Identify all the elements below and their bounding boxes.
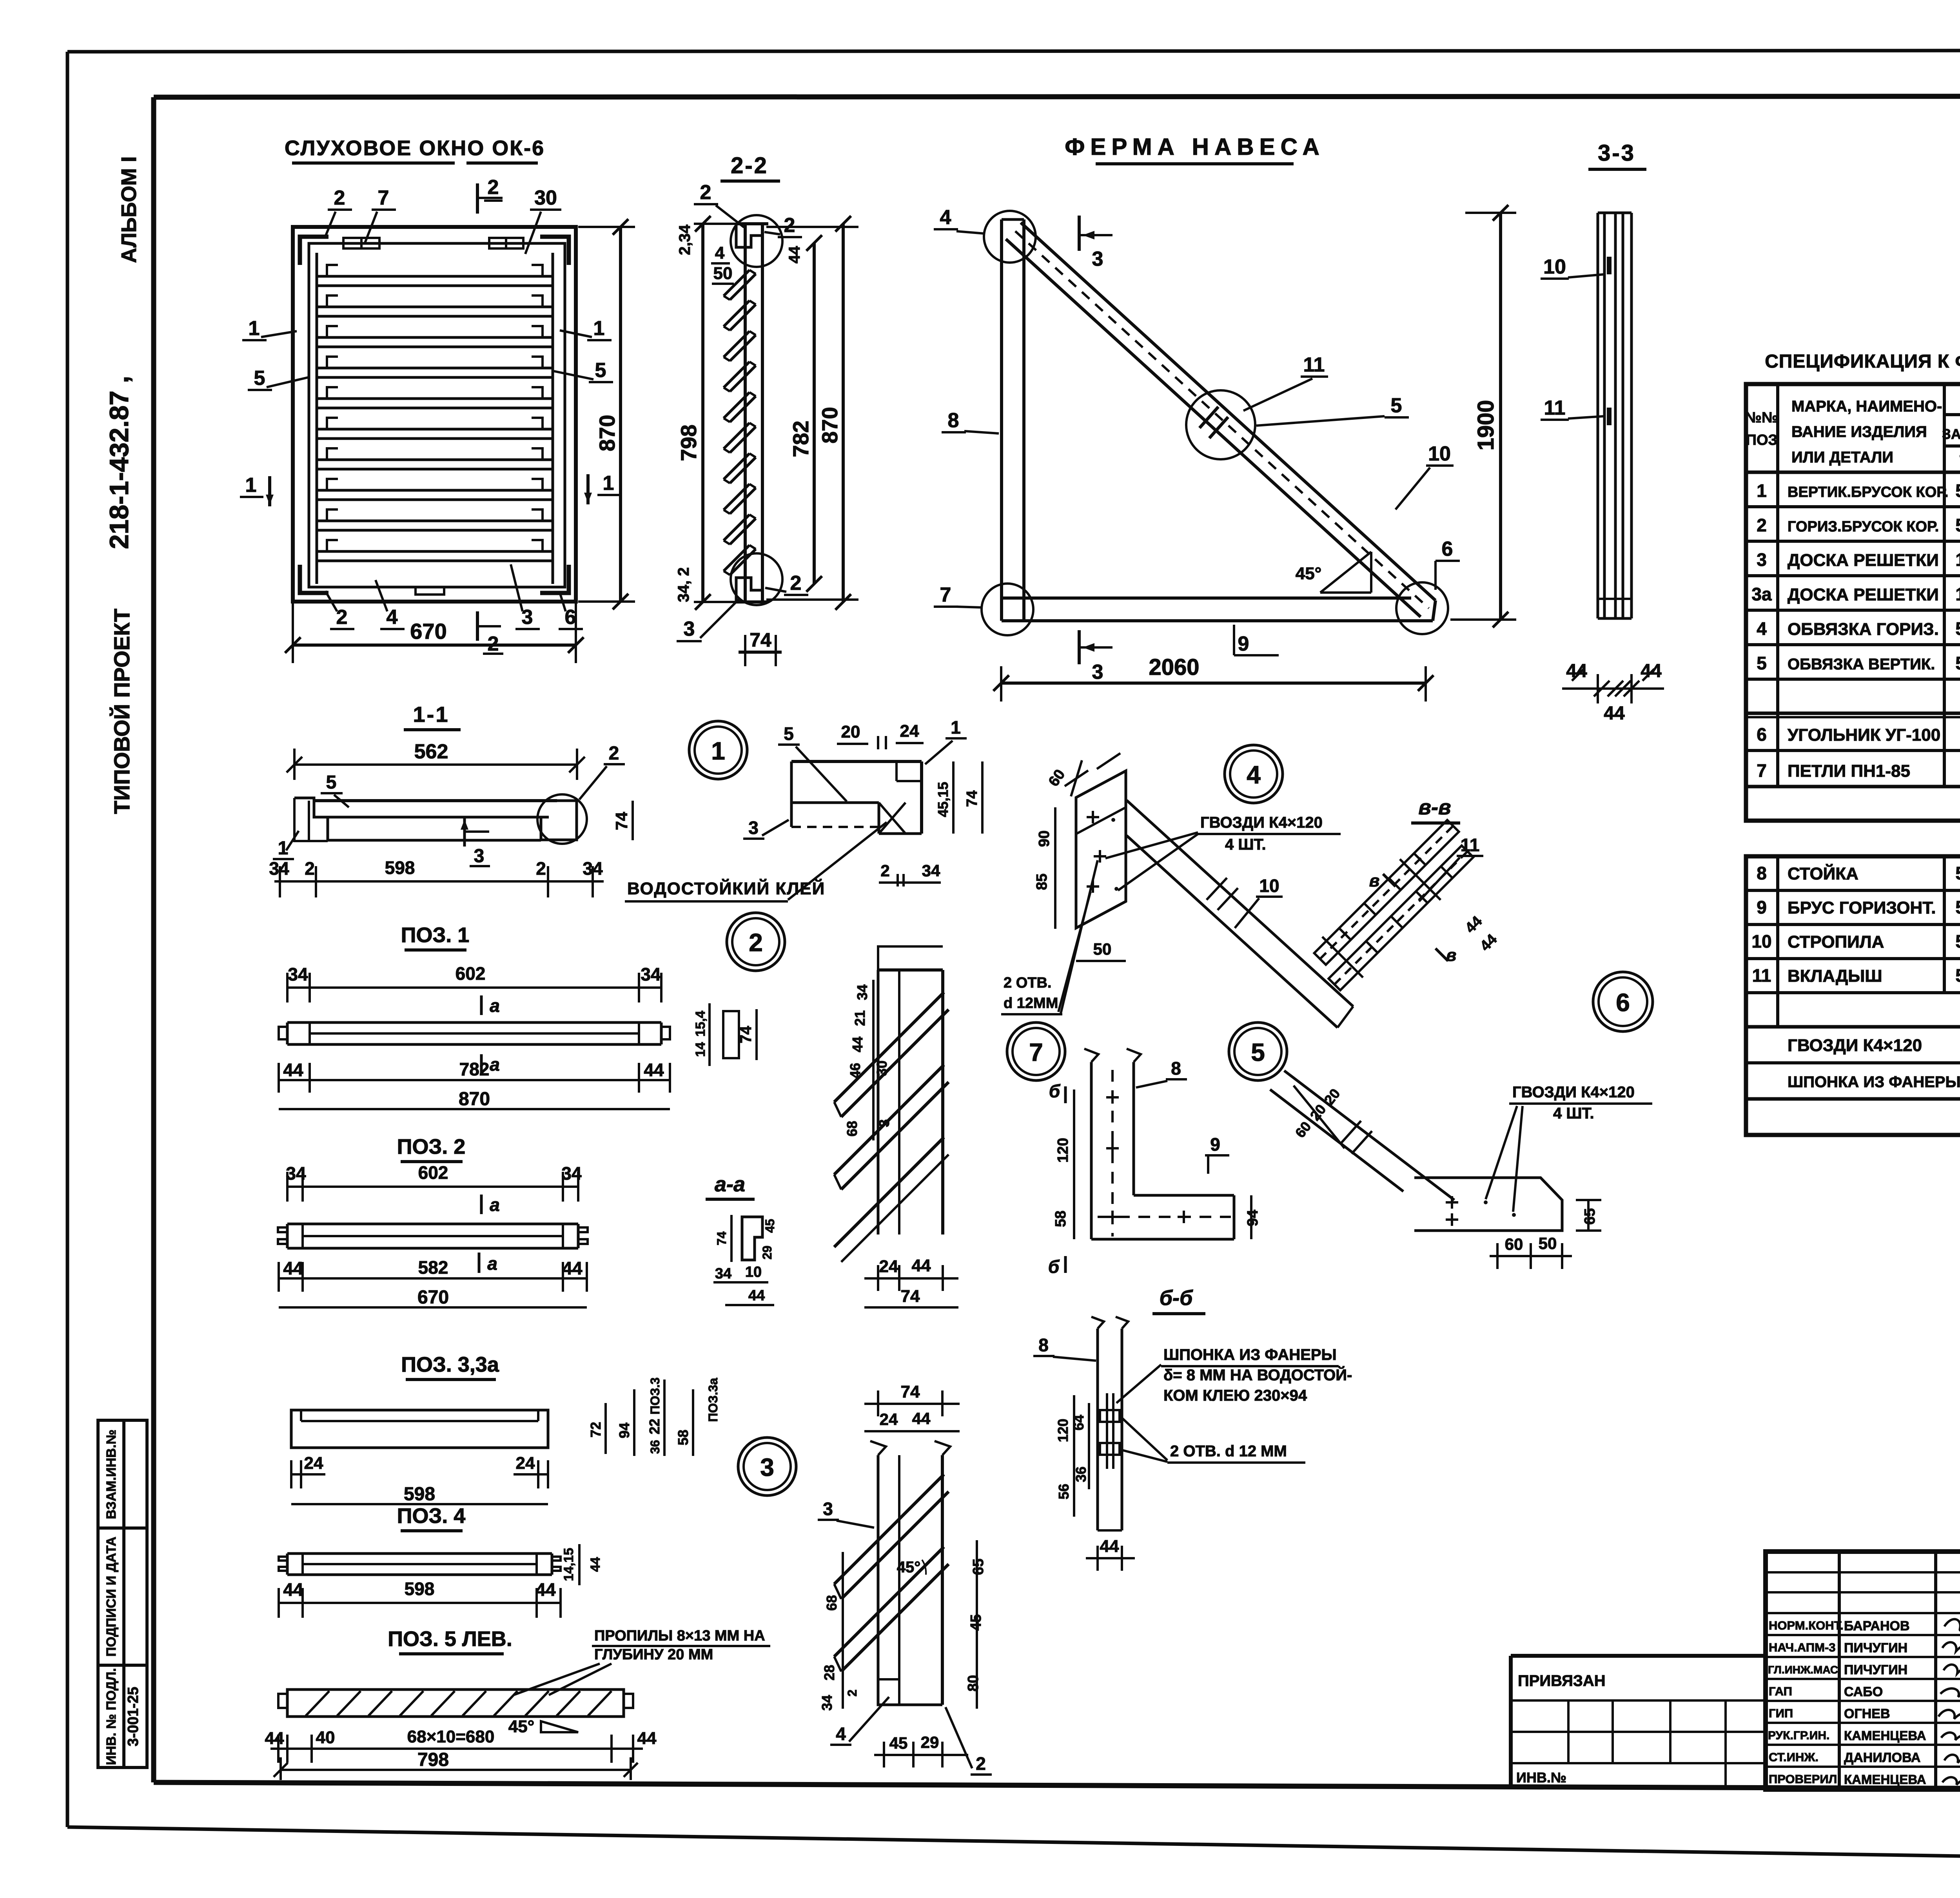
- window inner frame: [309, 243, 565, 587]
- svg-text:24: 24: [879, 1257, 898, 1276]
- gusset plate: [1076, 771, 1126, 928]
- svg-text:34: 34: [922, 861, 940, 880]
- svg-text:10: 10: [1751, 931, 1771, 952]
- svg-text:120: 120: [1055, 1138, 1071, 1162]
- top hinge tabs: [343, 238, 379, 248]
- data rows: [1751, 480, 1960, 818]
- right dims: [952, 761, 955, 834]
- svg-text:50: 50: [1955, 931, 1960, 952]
- svg-text:74: 74: [901, 1382, 920, 1401]
- svg-text:50: 50: [1955, 897, 1960, 917]
- svg-text:6: 6: [565, 606, 576, 629]
- svg-text:50: 50: [1955, 965, 1960, 986]
- callout 2 right: [609, 743, 619, 764]
- svg-text:ПОЗ. 4: ПОЗ. 4: [397, 1504, 466, 1528]
- svg-text:ШПОНКА ИЗ ФАНЕРЫ: ШПОНКА ИЗ ФАНЕРЫ: [1163, 1346, 1337, 1363]
- svg-text:14: 14: [693, 1042, 708, 1057]
- section mark 1 left: [245, 474, 257, 497]
- bottom dims: [864, 1277, 958, 1280]
- svg-text:5: 5: [1757, 653, 1767, 673]
- callout 1 right: [593, 317, 605, 340]
- L profile: [742, 1217, 762, 1260]
- svg-text:2: 2: [976, 1753, 986, 1774]
- section mark 3: [463, 817, 466, 847]
- section mark 3 bottom: [1078, 630, 1081, 664]
- svg-text:ТИПОВОЙ ПРОЕКТ: ТИПОВОЙ ПРОЕКТ: [109, 609, 134, 814]
- svg-text:ГВОЗДИ К4×120: ГВОЗДИ К4×120: [1788, 1036, 1922, 1055]
- svg-text:ШПОНКА ИЗ ФАНЕРЫ δ=8ММ 230×94: ШПОНКА ИЗ ФАНЕРЫ δ=8ММ 230×94: [1788, 1073, 1960, 1091]
- svg-text:10: 10: [1259, 876, 1279, 896]
- bottom chord (poz.9): [1002, 596, 1411, 600]
- svg-text:50: 50: [1093, 940, 1112, 958]
- svg-text:ОБВЯЗКА ГОРИЗ.: ОБВЯЗКА ГОРИЗ.: [1788, 620, 1939, 639]
- svg-text:УГОЛЬНИК УГ-100: УГОЛЬНИК УГ-100: [1788, 725, 1940, 745]
- svg-text:94: 94: [1245, 1210, 1261, 1226]
- svg-text:2060: 2060: [1149, 654, 1199, 680]
- svg-text:1900: 1900: [1473, 400, 1499, 450]
- break: [1341, 1121, 1361, 1144]
- svg-text:ГВОЗДИ К4×120: ГВОЗДИ К4×120: [1512, 1084, 1635, 1101]
- dims below: [279, 1277, 587, 1280]
- svg-text:24: 24: [900, 721, 919, 741]
- callout 5 mid: [1391, 394, 1402, 417]
- window outer frame: [293, 227, 576, 602]
- svg-text:ГОРИЗ.БРУСОК КОР.: ГОРИЗ.БРУСОК КОР.: [1788, 518, 1939, 535]
- svg-text:9: 9: [1757, 897, 1767, 917]
- svg-text:45: 45: [763, 1219, 777, 1233]
- svg-text:ГАП: ГАП: [1769, 1684, 1792, 1698]
- svg-text:670: 670: [417, 1287, 449, 1308]
- svg-text:44: 44: [748, 1287, 765, 1304]
- right dims: [976, 1540, 978, 1709]
- left attachment part: [1511, 1654, 1766, 1658]
- title: [1065, 134, 1325, 160]
- svg-text:ГИП: ГИП: [1769, 1706, 1793, 1720]
- dims below: [279, 1079, 670, 1081]
- svg-text:4: 4: [940, 206, 951, 229]
- right end circle detail: [537, 794, 587, 844]
- svg-text:2: 2: [784, 214, 795, 237]
- board: [287, 1021, 661, 1024]
- svg-text:2: 2: [1757, 515, 1767, 535]
- callout 3: [823, 1499, 833, 1519]
- svg-text:90: 90: [1036, 830, 1053, 847]
- bar body: [314, 799, 557, 802]
- glue note: [627, 878, 825, 898]
- svg-text:ПОЗ. 5 ЛЕВ.: ПОЗ. 5 ЛЕВ.: [388, 1627, 512, 1651]
- svg-text:7: 7: [1757, 760, 1767, 781]
- svg-text:798: 798: [676, 424, 701, 461]
- svg-text:8: 8: [948, 409, 959, 432]
- dim 798 left: [701, 224, 704, 602]
- signatures squiggles: [1938, 1619, 1960, 1786]
- small dims top-left: [676, 224, 803, 283]
- svg-text:ВКЛАДЫШ: ВКЛАДЫШ: [1788, 966, 1882, 986]
- svg-text:ПОЗ.3: ПОЗ.3: [648, 1378, 662, 1415]
- svg-text:2 ОТВ.: 2 ОТВ.: [1004, 975, 1051, 991]
- callout 5 right: [595, 359, 606, 382]
- svg-text:№№: №№: [1745, 410, 1779, 426]
- svg-text:34, 2: 34, 2: [675, 567, 692, 602]
- plywood key: [1106, 1393, 1108, 1469]
- svg-text:в: в: [1369, 871, 1380, 890]
- svg-text:10: 10: [1543, 256, 1566, 278]
- rafter end: [1284, 1071, 1454, 1200]
- svg-text:65: 65: [1582, 1208, 1598, 1225]
- svg-text:8: 8: [1757, 863, 1767, 883]
- svg-text:94: 94: [616, 1423, 632, 1438]
- svg-text:50: 50: [1539, 1234, 1557, 1253]
- callout 11 mid: [1303, 353, 1325, 376]
- callout 9: [1210, 1134, 1220, 1155]
- svg-text:45°: 45°: [1296, 564, 1322, 583]
- svg-text:50: 50: [1955, 515, 1960, 535]
- header texts: [1745, 390, 1960, 470]
- 45 deg: [897, 1559, 921, 1576]
- left dims: [1073, 1395, 1075, 1517]
- svg-text:7: 7: [378, 187, 389, 209]
- section mark 3 top: [1078, 216, 1081, 251]
- svg-text:4: 4: [387, 606, 398, 629]
- svg-text:44: 44: [283, 1258, 303, 1278]
- svg-text:2: 2: [609, 743, 619, 764]
- svg-text:ДОСКА РЕШЕТКИ: ДОСКА РЕШЕТКИ: [1788, 585, 1939, 604]
- small dims bottom-left: [675, 567, 692, 602]
- svg-text:44: 44: [1100, 1537, 1119, 1556]
- holes note: [1004, 975, 1058, 1012]
- dims below: [274, 880, 604, 883]
- svg-text:1-1: 1-1: [413, 702, 450, 727]
- svg-text:ПОЗ: ПОЗ: [1746, 432, 1778, 448]
- svg-text:РУК.ГР.ИН.: РУК.ГР.ИН.: [1768, 1729, 1829, 1742]
- svg-text:58: 58: [675, 1430, 691, 1445]
- vertical post (poz.8): [1000, 219, 1003, 621]
- svg-text:в: в: [1446, 946, 1457, 965]
- svg-text:2: 2: [334, 187, 345, 209]
- svg-text:40: 40: [316, 1728, 335, 1747]
- svg-text:3а: 3а: [1751, 584, 1772, 604]
- svg-text:2: 2: [305, 858, 315, 879]
- svg-text:44: 44: [786, 246, 803, 263]
- svg-text:50: 50: [713, 264, 733, 283]
- svg-text:22: 22: [646, 1419, 662, 1434]
- svg-text:14,15: 14,15: [561, 1548, 576, 1581]
- svg-text:5: 5: [326, 772, 337, 793]
- svg-text:24: 24: [304, 1454, 323, 1473]
- svg-text:44: 44: [912, 1256, 931, 1275]
- bottom dim 44: [1086, 1557, 1135, 1559]
- svg-text:4: 4: [1247, 761, 1261, 789]
- b marks: [1369, 871, 1380, 890]
- svg-text:4 ШТ.: 4 ШТ.: [1225, 836, 1266, 853]
- callout 4: [940, 206, 951, 229]
- svg-text:80: 80: [965, 1675, 982, 1691]
- a-a marks: [480, 995, 483, 1015]
- callout 4 bottom: [387, 606, 398, 629]
- callout 7: [940, 584, 951, 606]
- svg-text:582: 582: [418, 1257, 448, 1278]
- svg-text:БАРАНОВ: БАРАНОВ: [1844, 1619, 1910, 1633]
- svg-text:34: 34: [819, 1695, 835, 1711]
- svg-text:ПОЗ. 2: ПОЗ. 2: [397, 1135, 466, 1158]
- callout 5: [326, 772, 337, 793]
- section mark 1 right: [603, 472, 614, 495]
- named rows: [1766, 1612, 1960, 1614]
- callout 30 top: [534, 187, 557, 209]
- svg-text:11: 11: [1461, 835, 1480, 855]
- svg-text:598: 598: [405, 1579, 435, 1599]
- 3 mark left: [748, 818, 759, 838]
- svg-text:2: 2: [700, 181, 711, 204]
- svg-text:65: 65: [970, 1559, 987, 1575]
- svg-text:29: 29: [921, 1733, 939, 1751]
- svg-text:4 ШТ.: 4 ШТ.: [1553, 1105, 1594, 1122]
- svg-text:34: 34: [286, 1163, 306, 1184]
- svg-text:САБО: САБО: [1844, 1684, 1883, 1699]
- svg-text:5: 5: [1391, 394, 1402, 417]
- svg-text:45,15: 45,15: [935, 782, 951, 817]
- svg-text:1: 1: [711, 737, 725, 765]
- svg-text:16: 16: [1955, 549, 1960, 570]
- title 2-2: [731, 153, 768, 178]
- svg-text:КАМЕНЦЕВА: КАМЕНЦЕВА: [1844, 1728, 1926, 1743]
- rafter diagonal (poz.10): [1021, 223, 1436, 600]
- svg-text:2: 2: [488, 176, 499, 199]
- dim 870 right: [842, 224, 845, 602]
- svg-text:2: 2: [790, 572, 802, 595]
- svg-text:ПОЗ. 1: ПОЗ. 1: [401, 923, 470, 947]
- svg-text:3: 3: [876, 1119, 892, 1127]
- svg-text:45: 45: [889, 1734, 908, 1752]
- svg-text:ПЕТЛИ ПН1-85: ПЕТЛИ ПН1-85: [1788, 761, 1910, 781]
- svg-text:3-3: 3-3: [1598, 140, 1635, 166]
- svg-text:870: 870: [595, 415, 619, 451]
- callout 2 top-right: [784, 214, 795, 237]
- rafter member: [1127, 800, 1353, 1006]
- svg-text:8: 8: [1171, 1058, 1181, 1079]
- svg-text:44: 44: [283, 1060, 303, 1080]
- svg-text:7: 7: [1029, 1038, 1043, 1066]
- svg-text:3: 3: [522, 606, 533, 629]
- svg-text:СПЕЦИФИКАЦИЯ К ФЕРМЕ НАВЕСА: СПЕЦИФИКАЦИЯ К ФЕРМЕ НАВЕСА И СЛУХОВОМУ …: [1765, 351, 1960, 372]
- svg-text:15,4: 15,4: [693, 1011, 708, 1037]
- verticals: [1776, 856, 1779, 1027]
- top dims: [864, 1403, 960, 1405]
- section mark 2 top: [476, 183, 479, 214]
- dims along member: [1292, 1086, 1343, 1141]
- svg-text:1: 1: [593, 317, 605, 340]
- dim 74 bottom: [739, 651, 782, 654]
- svg-text:СТОЙКА: СТОЙКА: [1788, 863, 1858, 883]
- b section marks: [1049, 1081, 1061, 1101]
- dim 798: [281, 1769, 631, 1771]
- svg-text:670: 670: [410, 619, 446, 644]
- data: [1751, 863, 1960, 1128]
- callout 10: [1259, 876, 1279, 896]
- 45 deg label: [508, 1717, 535, 1736]
- svg-text:44: 44: [283, 1579, 303, 1600]
- svg-text:1: 1: [951, 717, 961, 738]
- svg-text:56: 56: [1056, 1484, 1072, 1499]
- svg-text:ПОДПИСИ И ДАТА: ПОДПИСИ И ДАТА: [104, 1537, 119, 1657]
- svg-text:в-в: в-в: [1418, 796, 1451, 819]
- svg-text:50: 50: [1955, 618, 1960, 639]
- svg-text:16: 16: [1955, 584, 1960, 604]
- svg-text:29: 29: [760, 1245, 774, 1260]
- svg-text:ПРОПИЛЫ 8×13 ММ НА: ПРОПИЛЫ 8×13 ММ НА: [594, 1628, 765, 1644]
- callout 8: [1038, 1335, 1049, 1355]
- svg-text:44: 44: [849, 1037, 866, 1052]
- svg-text:44: 44: [1604, 703, 1625, 724]
- svg-text:58: 58: [1053, 1211, 1069, 1227]
- svg-text:44: 44: [588, 1557, 603, 1572]
- vertical plank: [744, 224, 747, 602]
- nails: [1087, 811, 1106, 893]
- svg-text:45°: 45°: [897, 1559, 921, 1576]
- svg-text:ДОСКА РЕШЕТКИ: ДОСКА РЕШЕТКИ: [1788, 551, 1939, 570]
- nails: [1446, 1196, 1458, 1226]
- svg-text:20: 20: [1321, 1086, 1343, 1108]
- dim 2060: [1001, 682, 1426, 685]
- svg-text:6: 6: [1442, 538, 1453, 560]
- svg-text:3: 3: [1757, 549, 1767, 570]
- board hatched: [287, 1690, 624, 1717]
- bottom dims 60 50: [1490, 1255, 1572, 1257]
- key note: [1163, 1346, 1352, 1404]
- svg-text:СТРОПИЛА: СТРОПИЛА: [1788, 932, 1884, 952]
- svg-text:45: 45: [968, 1614, 984, 1631]
- svg-text:ИЛИ ДЕТАЛИ: ИЛИ ДЕТАЛИ: [1791, 449, 1893, 466]
- svg-text:44: 44: [535, 1579, 556, 1600]
- nail crosses: [1106, 1091, 1190, 1223]
- detail 3 batten bottom part: [818, 1382, 992, 1775]
- svg-text:34: 34: [715, 1265, 731, 1282]
- callout 9: [1238, 633, 1249, 655]
- svg-text:ПРИВЯЗАН: ПРИВЯЗАН: [1518, 1672, 1606, 1690]
- svg-text:6: 6: [1757, 724, 1767, 745]
- svg-text:44: 44: [637, 1729, 657, 1748]
- svg-text:3: 3: [684, 618, 695, 640]
- svg-text:34: 34: [269, 858, 289, 879]
- svg-text:ПИЧУГИН: ПИЧУГИН: [1844, 1641, 1907, 1655]
- svg-text:44: 44: [1462, 913, 1486, 937]
- svg-text:30: 30: [874, 1060, 890, 1076]
- svg-text:2: 2: [845, 1690, 859, 1697]
- dimension 670 bottom: [285, 604, 584, 663]
- corner angle brackets: [300, 237, 328, 265]
- dim 562: [294, 763, 577, 766]
- callout 4: [836, 1724, 846, 1744]
- svg-text:ВАНИЕ ИЗДЕЛИЯ: ВАНИЕ ИЗДЕЛИЯ: [1791, 423, 1927, 441]
- verticals: [1776, 384, 1779, 787]
- right dim 65: [1587, 1200, 1590, 1231]
- dim 1900: [1499, 213, 1502, 620]
- svg-text:3: 3: [748, 818, 759, 838]
- right dim stack: [606, 1380, 693, 1456]
- svg-text:34: 34: [854, 984, 870, 1000]
- svg-text:КОМ КЛЕЮ 230×94: КОМ КЛЕЮ 230×94: [1163, 1387, 1307, 1404]
- svg-text:ОБВЯЗКА ВЕРТИК.: ОБВЯЗКА ВЕРТИК.: [1788, 656, 1935, 673]
- svg-text:44: 44: [562, 1258, 583, 1278]
- svg-text:74: 74: [901, 1287, 920, 1306]
- dims 44: [1462, 913, 1501, 955]
- svg-text:1: 1: [245, 474, 257, 497]
- svg-text:а: а: [490, 1054, 500, 1075]
- callout 8: [948, 409, 959, 432]
- title: [285, 136, 545, 160]
- svg-text:4: 4: [715, 243, 725, 263]
- svg-text:1: 1: [249, 317, 260, 340]
- dim 50 below plate: [1076, 960, 1126, 962]
- svg-text:5: 5: [1251, 1038, 1265, 1066]
- left dims: [1054, 807, 1056, 929]
- svg-text:3: 3: [823, 1499, 833, 1519]
- svg-text:2 ОТВ. d 12 ММ: 2 ОТВ. d 12 ММ: [1170, 1443, 1287, 1460]
- right dim 94: [1250, 1195, 1252, 1239]
- svg-text:34: 34: [288, 964, 308, 984]
- svg-text:АЛЬБОМ I: АЛЬБОМ I: [117, 156, 141, 263]
- svg-text:ГВОЗДИ К4×120: ГВОЗДИ К4×120: [1200, 814, 1323, 831]
- svg-text:СЛУХОВОЕ ОКНО ОК-6: СЛУХОВОЕ ОКНО ОК-6: [285, 136, 545, 160]
- svg-text:ГЛУБИНУ 20 ММ: ГЛУБИНУ 20 ММ: [594, 1646, 713, 1663]
- svg-text:МАРКА, НАИМЕНО-: МАРКА, НАИМЕНО-: [1791, 398, 1942, 415]
- svg-text:δ= 8 ММ НА ВОДОСТОЙ-: δ= 8 ММ НА ВОДОСТОЙ-: [1163, 1366, 1352, 1384]
- svg-text:598: 598: [404, 1484, 435, 1505]
- callout 6 bottom: [565, 606, 576, 629]
- svg-text:9: 9: [1238, 633, 1249, 655]
- svg-text:ПОЗ. 3,3а: ПОЗ. 3,3а: [401, 1353, 499, 1376]
- callout 5 left: [254, 367, 265, 390]
- svg-text:а: а: [490, 995, 500, 1016]
- svg-text:120: 120: [1055, 1419, 1071, 1442]
- callout 2 bottom: [336, 606, 348, 629]
- svg-text:74: 74: [715, 1231, 729, 1245]
- svg-text:10: 10: [745, 1264, 762, 1280]
- svg-text:74: 74: [750, 629, 771, 651]
- svg-text:870: 870: [817, 407, 842, 443]
- side battens: [316, 253, 318, 584]
- callout 2 top: [334, 187, 345, 209]
- svg-text:ДАНИЛОВА: ДАНИЛОВА: [1844, 1750, 1920, 1765]
- svg-text:50: 50: [1955, 480, 1960, 501]
- svg-text:2: 2: [880, 861, 889, 880]
- bottom cap detail: [736, 578, 762, 602]
- svg-text:d 12ММ: d 12ММ: [1004, 995, 1058, 1012]
- 45 degree mark: [1320, 591, 1371, 594]
- callout 3 bottom: [684, 618, 695, 640]
- splice dashes in middle (poz.11 vkladysh): [1015, 231, 1429, 608]
- svg-text:6: 6: [1616, 988, 1630, 1017]
- svg-text:74: 74: [737, 1026, 755, 1043]
- svg-text:72: 72: [588, 1422, 604, 1438]
- svg-text:602: 602: [456, 963, 486, 984]
- svg-text:ПОЗ.3а: ПОЗ.3а: [706, 1378, 720, 1422]
- svg-text:2-2: 2-2: [731, 153, 768, 178]
- svg-text:598: 598: [385, 857, 415, 878]
- left margin vertical captions: [104, 156, 141, 814]
- detail circles on 2-2: [731, 215, 782, 267]
- top dim: [287, 986, 661, 989]
- svg-text:21: 21: [852, 1010, 868, 1026]
- svg-text:85: 85: [1034, 874, 1050, 890]
- svg-text:44: 44: [265, 1729, 284, 1748]
- detail 1 corner joint drawing: [625, 717, 982, 901]
- bottom dims: [879, 881, 941, 884]
- svg-text:НАЧ.АПМ-3: НАЧ.АПМ-3: [1769, 1641, 1835, 1654]
- nails note right: [1486, 1084, 1652, 1212]
- labels: [784, 723, 794, 744]
- svg-text:3: 3: [1092, 661, 1103, 683]
